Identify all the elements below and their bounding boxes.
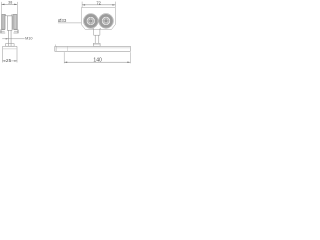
M10 leader arrow [6,38,9,39]
roller left [83,14,98,29]
dimension 25 arrows [3,60,17,61]
dimension 25 line left segment [3,60,7,62]
door rail joint line [66,46,68,51]
svg-text:38: 38 [8,1,12,5]
svg-text:25: 25 [6,58,12,64]
door rail bar [55,46,131,51]
dimension 140 extension right [129,52,131,63]
door rail left end screw tick [54,45,56,47]
clamp block inner line [3,48,17,50]
clamp block left side [2,46,4,62]
svg-text:Ø33: Ø33 [58,18,67,23]
trolley yoke top [6,14,12,15]
dimension 25 line right segment [11,60,17,62]
hanger plate [81,8,115,30]
dimension 38 line [1,3,17,5]
yoke below plate [93,29,101,36]
background [0,0,132,66]
nut on rail [93,43,100,46]
clamp block right side [16,46,18,62]
dimension 72 extension right [114,2,116,8]
M10 leader line [2,38,24,40]
hanger body [7,16,12,30]
bolt shaft through washer [7,44,9,47]
svg-text:140: 140 [93,58,102,64]
svg-text:72: 72 [96,0,101,5]
dimension 38 arrows [2,4,18,6]
nut mid line [93,44,100,46]
left wheel (section) [2,14,5,29]
bolt shaft left line [7,30,9,43]
roller right [99,13,114,28]
right wheel light stripe [14,15,16,29]
diameter 33 leader line [58,22,81,24]
dimension 140 line [64,61,130,63]
dimension 72 extension left [81,2,83,8]
dimension 72 line [82,4,115,6]
track bottom flange left [0,29,5,33]
right wheel (section) [13,14,18,29]
left wheel light stripe [2,15,5,29]
door rail inner top line [56,47,130,49]
dimension 140 extension left [63,52,65,63]
clamp block top edge [3,45,18,47]
svg-text:M10: M10 [25,37,32,41]
bolt stem front view [95,35,99,43]
dimension 140 arrows [64,61,130,63]
track bottom flange right [14,29,19,33]
washer [6,44,15,47]
track left wall / extension line [0,2,2,33]
track right wall / extension line [16,2,18,33]
door rail left end cap line [55,46,57,51]
dimension 72 arrows [82,4,115,6]
bolt shaft right line [10,30,12,43]
